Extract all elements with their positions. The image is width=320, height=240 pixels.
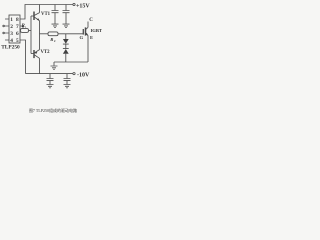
- svg-text:2: 2: [54, 39, 56, 43]
- svg-text:IGBT: IGBT: [91, 28, 103, 33]
- svg-text:6: 6: [16, 31, 19, 37]
- svg-text:5: 5: [16, 38, 19, 44]
- svg-text:8: 8: [16, 17, 19, 23]
- svg-text:VT1: VT1: [41, 12, 51, 17]
- svg-text:VT2: VT2: [41, 50, 51, 55]
- svg-text:2: 2: [10, 24, 13, 30]
- svg-text:-10V: -10V: [77, 73, 90, 79]
- svg-text:图7 TLP250组成的驱动电路: 图7 TLP250组成的驱动电路: [29, 107, 77, 113]
- svg-text:G: G: [80, 35, 84, 40]
- svg-text:4: 4: [10, 38, 13, 44]
- svg-text:1: 1: [10, 17, 13, 23]
- svg-text:E: E: [90, 35, 93, 40]
- svg-text:TLP250: TLP250: [1, 44, 20, 50]
- svg-text:C: C: [89, 18, 93, 23]
- svg-text:+15V: +15V: [76, 3, 90, 9]
- svg-text:7: 7: [16, 24, 19, 30]
- svg-text:R: R: [50, 37, 53, 42]
- svg-text:3: 3: [10, 31, 13, 37]
